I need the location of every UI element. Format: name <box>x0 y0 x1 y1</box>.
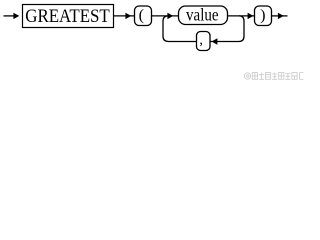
oval value <box>179 6 228 25</box>
loop right riser wire <box>211 16 245 42</box>
terminal comma <box>197 32 211 51</box>
wire ( to value <box>152 15 179 17</box>
start arrowhead <box>13 13 19 19</box>
watermark @ glyph <box>244 73 250 79</box>
terminal ) <box>255 6 272 26</box>
terminal ( <box>135 6 152 26</box>
svg-text:(: ( <box>139 6 144 24</box>
wire end segment <box>272 15 288 17</box>
svg-text:GREATEST: GREATEST <box>25 7 110 27</box>
end arrowhead <box>278 13 284 19</box>
wire value to ) <box>228 15 255 17</box>
svg-text:): ) <box>260 6 265 24</box>
svg-text:,: , <box>199 32 203 48</box>
wire start segment <box>4 15 15 17</box>
box GREATEST <box>23 5 114 28</box>
watermark pseudo-hanzi glyphs <box>252 73 303 80</box>
loop left riser wire <box>163 16 197 42</box>
arrowhead into ) <box>248 13 254 19</box>
arrowhead into value <box>167 13 173 19</box>
arrowhead into ( <box>125 13 131 19</box>
svg-text:value: value <box>186 4 219 24</box>
wire GREATEST to ( <box>114 15 135 17</box>
arrowhead into comma (pointing left) <box>212 38 218 44</box>
